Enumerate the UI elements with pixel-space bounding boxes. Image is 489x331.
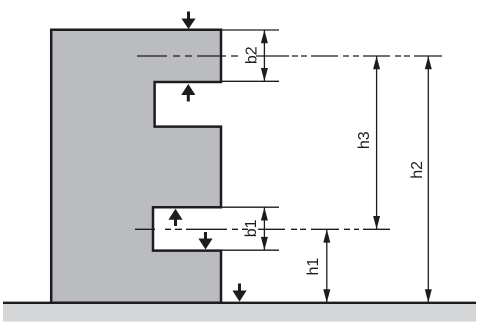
dimension h3 line with arrowheads [373, 56, 380, 229]
dimension b1 extension lines [222, 207, 279, 250]
dimension b1 line with arrowheads [261, 207, 268, 250]
thick arrow C (up, inside lower slot) [168, 209, 182, 226]
svg-text:h1: h1 [305, 258, 322, 276]
dimension b2 extension lines [222, 30, 279, 81]
ground line [3, 302, 476, 304]
thick arrow A (down, onto top face) [181, 12, 195, 30]
svg-text:b1: b1 [243, 219, 260, 237]
centerline lower (y=229.3) [135, 228, 390, 230]
centerline upper (y=56) [137, 55, 442, 57]
profile body (E-shaped block) [51, 30, 221, 303]
svg-text:h2: h2 [409, 161, 426, 179]
thick arrow D (down, inside lower slot) [198, 232, 212, 250]
dimension h2 line with arrowheads [425, 56, 432, 303]
thick arrow B (up, inside upper notch) [181, 84, 195, 102]
dimension h1 line with arrowheads [323, 229, 330, 302]
thick arrow E (down, onto ground at right of block) [232, 284, 246, 302]
svg-text:b2: b2 [243, 46, 260, 64]
svg-text:h3: h3 [356, 131, 373, 149]
dimension b2 line with arrowheads [261, 30, 268, 81]
ground band [3, 304, 476, 322]
